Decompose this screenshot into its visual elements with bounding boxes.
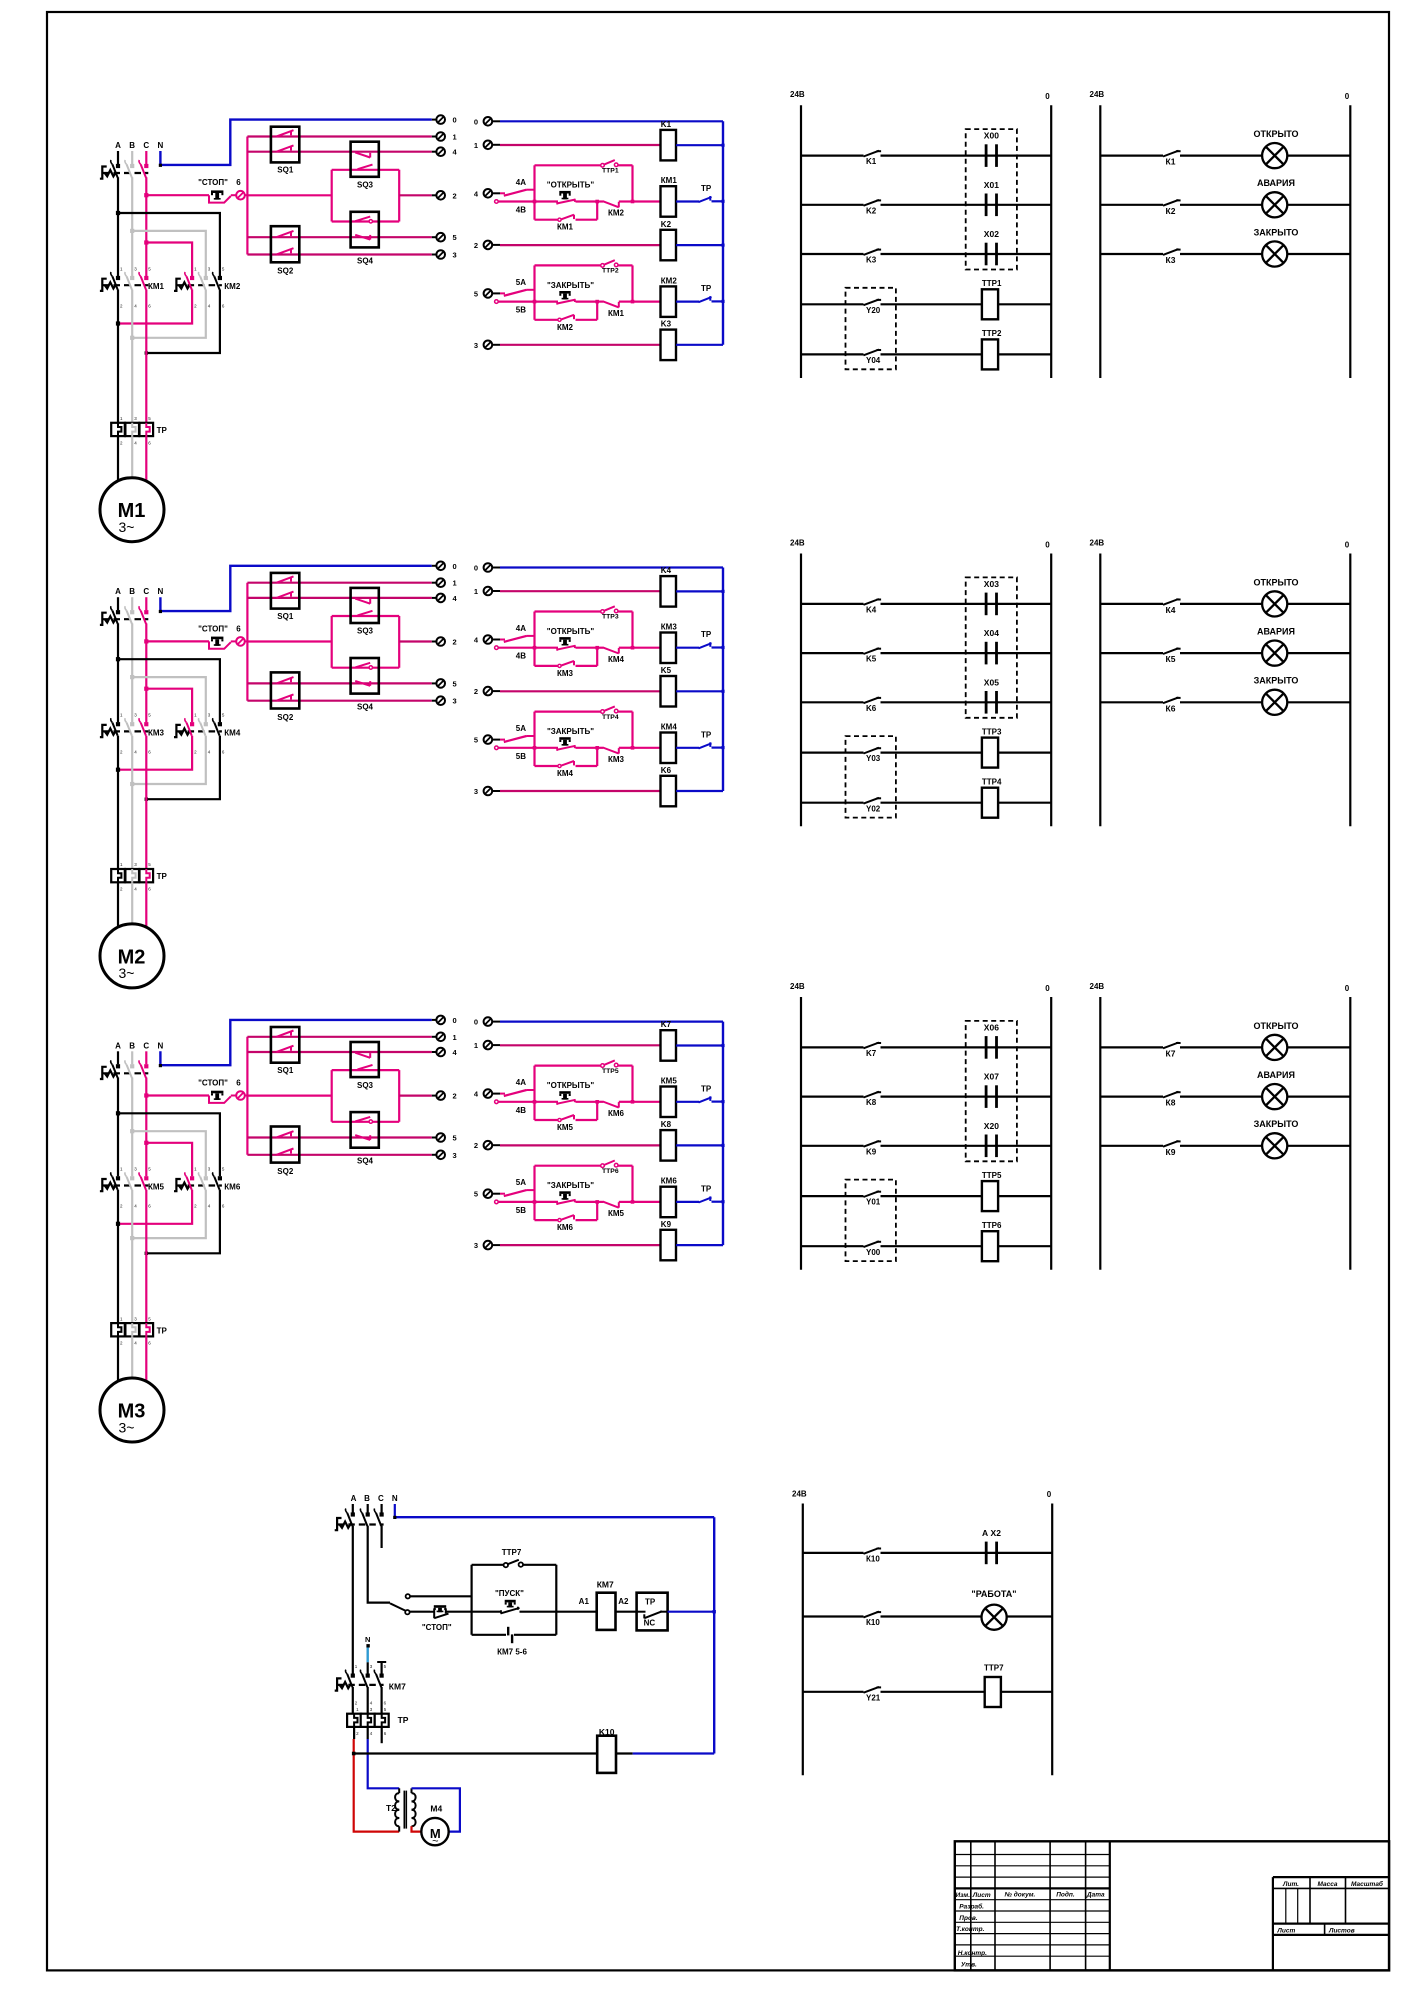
svg-text:24В: 24В <box>790 982 805 991</box>
svg-text:SQ1: SQ1 <box>277 612 294 621</box>
wire middle branch to coil <box>633 747 661 749</box>
output coil ТТР3 <box>982 738 998 768</box>
wire phase A to motor <box>117 1336 119 1382</box>
rung contact K9 <box>801 1145 864 1147</box>
motor М2 3~ <box>100 924 164 988</box>
svg-text:SQ3: SQ3 <box>357 1081 374 1090</box>
wire SQ1 top to terminal 1 <box>247 582 431 584</box>
svg-text:K1: K1 <box>866 157 877 166</box>
dashed box PLC outputs <box>846 1180 896 1262</box>
thermal contact ТР NC box <box>637 1593 668 1631</box>
svg-text:Y00: Y00 <box>866 1248 881 1257</box>
svg-text:K3: K3 <box>866 256 877 265</box>
branch middle wire 5В <box>495 746 499 750</box>
svg-text:SQ4: SQ4 <box>357 703 374 712</box>
wire K7 to bus <box>676 1044 723 1046</box>
wire SQ3/SQ4 parallel rectangle <box>332 616 400 668</box>
wire КМ2 output pole5 to C line <box>146 290 220 354</box>
wire crossover C to KM2 pole <box>146 243 192 277</box>
wire SQ1 bottom to terminal 4 <box>247 597 431 599</box>
bottom ladder rail 24В <box>802 1504 804 1776</box>
svg-text:X07: X07 <box>984 1072 999 1082</box>
svg-text:КМ7 5-6: КМ7 5-6 <box>497 1648 527 1657</box>
wire phase C stub <box>381 1526 383 1548</box>
rung contact Y03 <box>801 751 864 753</box>
dashed box PLC inputs <box>966 577 1017 717</box>
svg-text:2: 2 <box>474 1141 478 1150</box>
svg-text:КМ5: КМ5 <box>608 1209 625 1218</box>
junction C <box>144 1141 148 1145</box>
svg-text:K7: K7 <box>866 1049 877 1058</box>
PLC input contact X05 <box>981 701 1051 703</box>
svg-text:К10: К10 <box>866 1618 880 1627</box>
lamp ladder rail 24В <box>1099 997 1101 1270</box>
svg-text:ТР: ТР <box>157 426 168 435</box>
svg-text:К4: К4 <box>1166 605 1176 615</box>
wire SQ1 top to terminal 1 <box>247 135 431 137</box>
lamp АВАРИЯ <box>1262 1084 1287 1109</box>
NC contact КМ5 <box>597 1201 603 1203</box>
limit switch SQ3 <box>351 588 379 623</box>
svg-text:"СТОП": "СТОП" <box>198 1079 228 1088</box>
svg-text:К10: К10 <box>866 1555 880 1564</box>
"СТОП" button (block М2) <box>146 640 209 642</box>
output coil ТТР7 <box>985 1677 1001 1707</box>
wire phase A top stub <box>117 597 119 610</box>
svg-text:К5: К5 <box>1166 654 1176 664</box>
lamp rung contact К3 <box>1100 253 1163 255</box>
svg-text:К2: К2 <box>1166 206 1176 216</box>
limit switch SQ2 <box>271 226 299 262</box>
svg-text:C: C <box>143 587 149 596</box>
svg-text:4В: 4В <box>516 206 526 215</box>
lamp ОТКРЫТО <box>1262 1035 1287 1060</box>
NC contact КМ2 <box>597 200 603 202</box>
wire terminal 3 to relay K9 <box>500 1244 661 1246</box>
wire N (blue) to terminal 0 <box>160 566 431 611</box>
branch top wire with ТТР4 contact <box>535 710 602 712</box>
lamp rung contact К1 <box>1100 155 1163 157</box>
wire phase B top stub <box>131 151 133 164</box>
svg-text:K1: K1 <box>661 120 672 129</box>
branch middle wire 4В <box>495 200 499 204</box>
svg-text:0: 0 <box>453 1016 457 1025</box>
svg-text:ТТР7: ТТР7 <box>502 1548 522 1557</box>
svg-text:ТТР5: ТТР5 <box>982 1171 1002 1180</box>
svg-text:КМ2: КМ2 <box>661 276 678 285</box>
svg-text:B: B <box>129 1041 135 1050</box>
relay coil K1 <box>661 130 677 161</box>
thermal contact ТР after КМ4 <box>676 747 699 749</box>
svg-text:КМ1: КМ1 <box>557 223 574 232</box>
wire pole3 stub for KM7 <box>381 1662 383 1673</box>
thermal contact ТР after КМ1 <box>676 200 699 202</box>
contactor coil КМ3 <box>661 633 677 664</box>
svg-text:K7: K7 <box>661 1020 672 1029</box>
lamp rung contact К2 <box>1100 204 1163 206</box>
contactor coil КМ1 <box>661 186 677 217</box>
lamp ladder rail 0 <box>1349 554 1351 827</box>
svg-text:К7: К7 <box>1166 1048 1176 1058</box>
contactor coil КМ4 <box>661 733 677 764</box>
svg-text:5В: 5В <box>516 752 526 761</box>
wire КМ4 output pole5 to C line <box>146 736 220 800</box>
motor М1 3~ <box>100 478 164 542</box>
selfhold bottom wire with NO contact КМ3 <box>535 665 560 667</box>
junction C <box>144 240 148 244</box>
svg-text:2: 2 <box>453 191 457 200</box>
PLC input contact X06 <box>981 1046 1051 1048</box>
svg-text:АВАРИЯ: АВАРИЯ <box>1257 178 1295 188</box>
branch top wire with ТТР5 contact <box>535 1064 602 1066</box>
svg-text:ЗАКРЫТО: ЗАКРЫТО <box>1254 1119 1299 1129</box>
svg-text:K6: K6 <box>661 766 672 775</box>
wire parallel to terminal 2 <box>399 640 432 642</box>
wire SQ1 bottom to terminal 4 <box>247 1051 431 1053</box>
svg-text:3: 3 <box>453 1151 457 1160</box>
selfhold bottom wire with NO contact КМ5 <box>535 1119 560 1121</box>
svg-text:K9: K9 <box>866 1147 877 1156</box>
svg-text:K2: K2 <box>866 206 877 215</box>
svg-text:X20: X20 <box>984 1121 999 1131</box>
svg-text:Y02: Y02 <box>866 804 881 813</box>
svg-text:Разраб.: Разраб. <box>959 1903 984 1911</box>
rung to relay K10 <box>354 1752 598 1754</box>
wire phase B to motor <box>131 882 133 925</box>
wire crossover A to KM2 pole <box>118 213 220 276</box>
wire terminal 0 to bus (blue) <box>500 120 723 122</box>
wire terminal 0 to bus (blue) <box>500 1020 723 1022</box>
wire phase B to thermal relay <box>131 290 133 423</box>
blue bus vertical <box>722 1022 724 1246</box>
svg-text:ТТР6: ТТР6 <box>602 1168 619 1175</box>
svg-text:C: C <box>143 1041 149 1050</box>
wire phase B to contactor <box>131 623 133 722</box>
blue bus vertical <box>722 121 724 344</box>
selfhold bottom wire with NO contact КМ1 <box>535 219 560 221</box>
wire K9 to bus <box>676 1244 723 1246</box>
svg-text:0: 0 <box>1345 92 1350 101</box>
wire phase A to contactor <box>117 1078 119 1177</box>
svg-text:Изм.: Изм. <box>956 1892 971 1899</box>
contactor contacts КМ4 <box>174 725 181 737</box>
branch vertical right <box>631 712 633 748</box>
wire main control rung <box>410 1611 430 1613</box>
ladder rail 0 right <box>1050 105 1052 378</box>
svg-text:КМ6: КМ6 <box>661 1177 678 1186</box>
lamp АВАРИЯ <box>1262 192 1287 217</box>
circuit breaker QF (block М3) <box>100 1067 107 1079</box>
svg-text:КМ4: КМ4 <box>608 655 625 664</box>
wire N to blue bus <box>394 1504 396 1517</box>
contactor coil КМ6 <box>661 1187 677 1218</box>
wire K2 to bus <box>676 244 723 246</box>
svg-text:3~: 3~ <box>119 965 135 981</box>
svg-text:ТТР2: ТТР2 <box>982 329 1002 338</box>
wire SQ2 bottom to terminal 3 <box>247 1154 431 1156</box>
limit switch SQ4 <box>351 658 379 694</box>
svg-text:24В: 24В <box>792 1490 807 1499</box>
wire phase C to contactor <box>145 623 147 722</box>
svg-text:ОТКРЫТО: ОТКРЫТО <box>1253 129 1298 139</box>
svg-text:4А: 4А <box>516 624 526 633</box>
svg-text:N: N <box>158 1041 164 1050</box>
svg-text:А2: А2 <box>618 1597 629 1606</box>
svg-text:КМ5: КМ5 <box>661 1077 678 1086</box>
svg-text:0: 0 <box>1345 984 1350 993</box>
rung contact K4 <box>801 603 864 605</box>
PLC input contact X20 <box>981 1145 1051 1147</box>
junction K10 rung <box>352 1752 356 1756</box>
svg-text:ТТР3: ТТР3 <box>982 727 1002 736</box>
svg-text:"ОТКРЫТЬ": "ОТКРЫТЬ" <box>547 1081 595 1090</box>
terminal 6 <box>231 640 236 642</box>
svg-text:ТТР1: ТТР1 <box>982 279 1002 288</box>
wire middle branch to coil <box>633 301 661 303</box>
svg-text:0: 0 <box>1045 984 1050 993</box>
svg-text:3: 3 <box>474 1241 478 1250</box>
wire phase C to motor <box>145 436 147 482</box>
svg-text:ТТР3: ТТР3 <box>602 614 619 621</box>
wire phase C top stub <box>145 151 147 164</box>
lamp rung contact К9 <box>1100 1145 1163 1147</box>
rung contact Y01 <box>801 1195 864 1197</box>
wire phase B to contactor <box>131 1078 133 1177</box>
svg-text:24В: 24В <box>1090 982 1105 991</box>
wire K6 to bus <box>676 790 723 792</box>
svg-text:K10: K10 <box>599 1727 615 1737</box>
svg-text:КМ1: КМ1 <box>148 282 165 291</box>
svg-text:К6: К6 <box>1166 703 1176 713</box>
svg-text:C: C <box>143 141 149 150</box>
junction A <box>116 1111 120 1115</box>
circuit breaker QF (block М2) <box>100 613 107 625</box>
svg-text:ОТКРЫТО: ОТКРЫТО <box>1253 1021 1298 1031</box>
svg-text:SQ2: SQ2 <box>277 267 294 276</box>
svg-text:X01: X01 <box>984 180 999 190</box>
svg-text:K2: K2 <box>661 220 672 229</box>
wire phase A to thermal relay <box>117 290 119 423</box>
branch vertical right <box>631 1066 633 1102</box>
lamp АВАРИЯ <box>1262 641 1287 666</box>
svg-text:2: 2 <box>453 1092 457 1101</box>
relay coil K6 <box>661 776 677 807</box>
svg-text:K9: K9 <box>661 1220 672 1229</box>
svg-text:N: N <box>158 587 164 596</box>
svg-text:A: A <box>351 1494 357 1503</box>
rung contact K8 <box>801 1095 864 1097</box>
NC contact КМ3 <box>597 747 603 749</box>
lamp ladder rail 24В <box>1099 105 1101 378</box>
rung contact K10 / lamp РАБОТА <box>803 1615 864 1617</box>
svg-text:3~: 3~ <box>119 519 135 535</box>
svg-text:"СТОП": "СТОП" <box>198 624 228 633</box>
svg-text:№ докум.: № докум. <box>1005 1890 1036 1898</box>
contactor contacts КМ2 <box>174 279 181 291</box>
wire КМ2 output pole1 to A line <box>118 290 192 324</box>
svg-text:K8: K8 <box>661 1120 672 1129</box>
motor М3 3~ <box>100 1378 164 1442</box>
output coil ТТР4 <box>982 788 998 818</box>
relay coil K5 <box>661 676 677 707</box>
svg-text:1: 1 <box>453 1033 457 1042</box>
branch vertical left <box>533 1066 535 1120</box>
svg-text:1: 1 <box>453 133 457 142</box>
dashed box PLC inputs <box>966 1021 1017 1161</box>
contact 4А <box>500 1093 505 1095</box>
lamp rung contact К6 <box>1100 701 1163 703</box>
wire middle branch to coil <box>633 200 661 202</box>
wire phase B to contactor <box>131 177 133 276</box>
lamp ОТКРЫТО <box>1262 143 1287 168</box>
svg-text:Масса: Масса <box>1318 1881 1338 1888</box>
branch vertical left <box>533 712 535 766</box>
contact 5А <box>500 292 505 294</box>
branch top wire with ТТР2 contact <box>535 264 602 266</box>
contactor coil КМ7 <box>597 1593 616 1630</box>
bottom ladder rail 0 <box>1051 1504 1053 1776</box>
selfhold bottom wire with NO contact КМ6 <box>535 1219 560 1221</box>
wire T2 secondary top to M4 (blue) <box>412 1788 460 1831</box>
title block rows left <box>955 1854 1110 1856</box>
svg-text:Y01: Y01 <box>866 1198 881 1207</box>
lamp ladder rail 0 <box>1349 105 1351 378</box>
svg-text:"СТОП": "СТОП" <box>422 1623 452 1632</box>
svg-text:SQ2: SQ2 <box>277 1167 294 1176</box>
wire КМ6 output pole5 to C line <box>146 1190 220 1254</box>
relay coil K4 <box>661 576 677 607</box>
limit switch SQ1 <box>271 1027 299 1063</box>
terminal 6 <box>231 194 236 196</box>
svg-text:К3: К3 <box>1166 255 1176 265</box>
svg-text:Y21: Y21 <box>866 1693 881 1702</box>
wire TP to bus (blue) <box>668 1611 715 1613</box>
wire КМ6 output pole3 to B line <box>132 1190 206 1238</box>
svg-text:6: 6 <box>236 1079 241 1088</box>
branch vertical right <box>631 612 633 648</box>
lamp rung contact К4 <box>1100 603 1163 605</box>
svg-text:Т.контр.: Т.контр. <box>956 1926 984 1933</box>
svg-text:ТТР6: ТТР6 <box>982 1221 1002 1230</box>
svg-text:ТТР7: ТТР7 <box>984 1664 1004 1673</box>
wire phase B top stub <box>131 597 133 610</box>
svg-text:5: 5 <box>474 736 478 745</box>
svg-text:А Х2: А Х2 <box>982 1528 1001 1538</box>
svg-text:0: 0 <box>474 564 478 573</box>
contactor coil КМ5 <box>661 1087 677 1118</box>
thermal relay ТР (bottom) <box>347 1714 361 1727</box>
thermal relay TP (block М1) <box>111 423 125 436</box>
circuit breaker QF (block М1) <box>100 167 107 179</box>
svg-text:Дата: Дата <box>1086 1891 1105 1898</box>
svg-text:КМ7: КМ7 <box>389 1682 406 1692</box>
wire phase A top stub <box>117 1051 119 1064</box>
junction A <box>116 211 120 215</box>
svg-text:КМ3: КМ3 <box>557 669 574 678</box>
wire parallel to terminal 2 <box>399 194 432 196</box>
wire SQ2 bottom to terminal 3 <box>247 253 431 255</box>
relay coil K3 <box>661 330 677 361</box>
dashed box PLC outputs <box>846 288 896 370</box>
contactor contacts КМ5 <box>100 1179 107 1191</box>
ladder rail 24В left <box>800 105 802 378</box>
wire SQ common vertical <box>246 137 248 255</box>
svg-text:"СТОП": "СТОП" <box>198 178 228 187</box>
svg-text:24В: 24В <box>790 90 805 99</box>
branch top wire with ТТР3 contact <box>535 610 602 612</box>
branch vertical right <box>631 265 633 301</box>
limit switch SQ2 <box>271 672 299 708</box>
svg-text:ТР: ТР <box>701 284 712 293</box>
svg-text:Y04: Y04 <box>866 356 881 365</box>
contactor coil КМ2 <box>661 286 677 317</box>
svg-text:Лист: Лист <box>972 1892 991 1899</box>
wire crossover A to KM2 pole <box>118 1113 220 1176</box>
blue bus vertical <box>722 568 724 792</box>
wire КМ6 output pole1 to A line <box>118 1190 192 1224</box>
contactor contacts КМ3 <box>100 725 107 737</box>
contact 5А <box>500 1193 505 1195</box>
junction C <box>144 687 148 691</box>
svg-text:X02: X02 <box>984 229 999 239</box>
svg-text:"ЗАКРЫТЬ": "ЗАКРЫТЬ" <box>547 281 594 290</box>
rung contact Y20 <box>801 303 864 305</box>
svg-text:Подп.: Подп. <box>1056 1890 1075 1898</box>
svg-text:Y03: Y03 <box>866 754 881 763</box>
wire terminal 2 to relay K2 <box>500 244 661 246</box>
svg-text:X00: X00 <box>984 131 999 141</box>
svg-text:ТР: ТР <box>645 1598 656 1607</box>
svg-text:5В: 5В <box>516 1206 526 1215</box>
svg-text:Масштаб: Масштаб <box>1351 1880 1384 1888</box>
svg-text:5: 5 <box>474 1190 478 1199</box>
wire phase C to contactor <box>145 177 147 276</box>
wire SQ2 bottom to terminal 3 <box>247 700 431 702</box>
svg-text:4А: 4А <box>516 1078 526 1087</box>
svg-text:КМ4: КМ4 <box>557 769 574 778</box>
NC contact КМ6 <box>597 1101 603 1103</box>
wire K4 to bus <box>676 590 723 592</box>
svg-text:B: B <box>364 1494 370 1503</box>
contactor contacts КМ1 <box>100 279 107 291</box>
relay coil K10 <box>597 1736 616 1773</box>
lamp rung contact К8 <box>1100 1095 1163 1097</box>
svg-text:5: 5 <box>453 679 457 688</box>
wire terminal 1 to relay K7 <box>500 1044 661 1046</box>
wire middle to SQ3/SQ4 parallel <box>247 1094 331 1096</box>
wire N (blue) to terminal 0 <box>160 1020 431 1065</box>
relay coil K8 <box>661 1130 677 1161</box>
svg-text:K8: K8 <box>866 1098 877 1107</box>
wire crossover B to KM2 pole <box>132 231 206 276</box>
wire K5 to bus <box>676 690 723 692</box>
svg-text:КМ3: КМ3 <box>608 755 625 764</box>
PLC input contact X03 <box>981 603 1051 605</box>
svg-text:АВАРИЯ: АВАРИЯ <box>1257 627 1295 637</box>
wire crossover C to KM2 pole <box>146 1143 192 1177</box>
svg-text:ОТКРЫТО: ОТКРЫТО <box>1253 577 1298 587</box>
svg-text:ТР: ТР <box>157 1326 168 1335</box>
svg-text:КМ6: КМ6 <box>557 1223 574 1232</box>
svg-text:ТР: ТР <box>701 730 712 739</box>
wire phase A to contactor <box>117 623 119 722</box>
branch vertical right <box>631 165 633 201</box>
svg-text:"РАБОТА": "РАБОТА" <box>971 1589 1016 1599</box>
wire T2 secondary bottom to M4 (red) <box>412 1826 422 1831</box>
PLC input contact X00 <box>981 155 1051 157</box>
wire N (blue) to terminal 0 <box>160 120 431 165</box>
wire phase A to motor <box>117 436 119 482</box>
